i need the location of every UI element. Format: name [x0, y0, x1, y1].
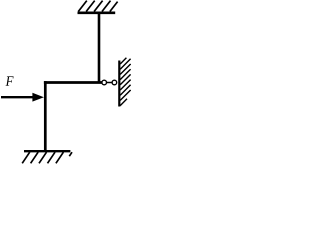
pin circle right — [112, 80, 117, 85]
force F arrow — [1, 96, 34, 98]
right wall line — [118, 61, 120, 107]
top fixed support line — [78, 12, 116, 15]
bottom fixed support line — [24, 150, 70, 152]
bottom support hatching — [22, 152, 72, 163]
horizontal beam member — [44, 81, 102, 84]
top support hatching — [78, 1, 117, 12]
top column member — [98, 14, 101, 83]
left column member — [44, 81, 47, 151]
pin link bar — [107, 82, 112, 84]
pin circle left — [102, 80, 107, 85]
right wall hatching — [120, 58, 130, 106]
label F — [6, 76, 14, 85]
